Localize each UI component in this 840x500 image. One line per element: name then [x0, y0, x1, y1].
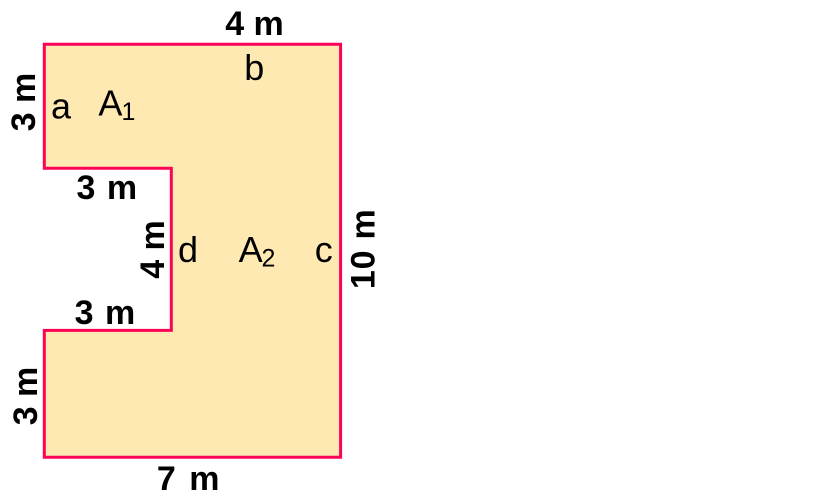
svg-text:A: A — [98, 82, 122, 123]
svg-text:b: b — [244, 47, 264, 88]
svg-text:2: 2 — [262, 244, 276, 272]
composite rectilinear shape (rectangle with left notch), cream fill, pink outline — [44, 44, 340, 457]
svg-text:7 m: 7 m — [157, 460, 222, 498]
svg-text:a: a — [51, 85, 72, 126]
svg-text:3 m: 3 m — [77, 169, 139, 207]
svg-text:4 m: 4 m — [134, 220, 172, 279]
svg-text:3 m: 3 m — [5, 73, 43, 132]
svg-text:3 m: 3 m — [7, 367, 45, 426]
svg-text:4 m: 4 m — [225, 5, 284, 43]
svg-text:3 m: 3 m — [75, 294, 137, 332]
svg-text:1: 1 — [122, 98, 136, 126]
svg-text:c: c — [315, 229, 333, 270]
svg-text:10 m: 10 m — [344, 208, 382, 289]
svg-text:A: A — [239, 229, 263, 270]
svg-text:d: d — [178, 229, 198, 270]
